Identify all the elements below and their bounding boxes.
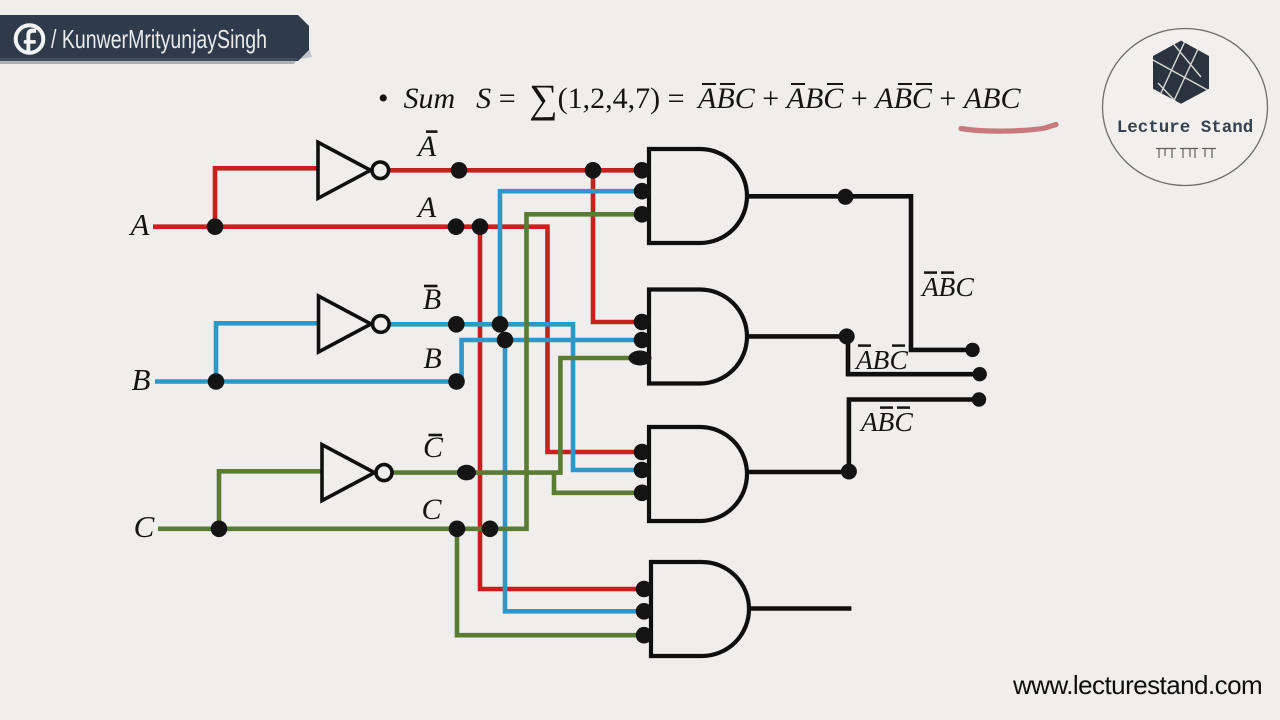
NOT gate U2 (B inverter)	[319, 296, 390, 352]
terminal dot S3	[972, 392, 986, 406]
svg-text:C: C	[134, 509, 155, 544]
pin dot G4 input 3	[636, 627, 653, 644]
svg-text:A: A	[859, 406, 878, 437]
node dot Abar label	[451, 162, 468, 179]
pin dot G3 input 3	[634, 485, 651, 502]
wire C to NOT gate U3	[219, 471, 322, 529]
pin dot G3 input 1	[634, 444, 651, 461]
svg-text:A: A	[416, 130, 437, 163]
wire Bbar branch to AND gate G1	[500, 191, 640, 324]
lecture stand logo	[1095, 15, 1280, 195]
pin dot G1 input 2	[634, 183, 651, 200]
AND gate G3	[649, 427, 747, 521]
pin dot G4 input 1	[636, 581, 653, 598]
pin dot G1 input 1	[634, 162, 651, 179]
wire Cbar step branch to AND gate G3	[554, 473, 640, 493]
junction dot Abar to G2	[585, 162, 602, 179]
AND gate G2	[649, 290, 747, 384]
svg-text:C: C	[956, 271, 975, 302]
wire B input row	[155, 340, 640, 382]
wire B to NOT gate U2	[216, 323, 319, 381]
logo hexagon	[1151, 39, 1213, 107]
junction dot A-inverter tap	[207, 218, 224, 235]
svg-text:A: A	[854, 344, 873, 375]
svg-text:B: B	[939, 271, 956, 302]
logo circle	[1103, 29, 1268, 186]
node dot B label	[448, 373, 465, 390]
terminal dot S2	[973, 367, 987, 381]
junction dot C-inverter tap	[211, 521, 228, 538]
svg-text:B: B	[423, 283, 441, 316]
junction dot B-inverter tap	[208, 373, 225, 390]
pin dot G1 input 3	[634, 206, 651, 223]
facebook badge banner	[0, 0, 330, 70]
node dot A label	[448, 218, 465, 235]
pin dot G4 input 2	[636, 603, 653, 620]
node dot G1 output	[837, 189, 853, 205]
AND gate G4	[651, 562, 749, 656]
junction dot A to G4	[472, 218, 489, 235]
facebook icon circle	[16, 25, 44, 53]
node dot G2 output	[839, 328, 855, 344]
badge body	[0, 15, 309, 61]
NOT gate U1 (A inverter)	[318, 142, 389, 198]
website url	[1013, 670, 1262, 701]
svg-text:C: C	[895, 406, 914, 437]
node dot Cbar label	[457, 465, 476, 481]
junction dot B to G4	[497, 332, 514, 349]
svg-text:A: A	[129, 207, 151, 242]
svg-text:A: A	[920, 271, 939, 302]
node dot Bbar label	[448, 316, 465, 333]
wire A branch to AND gate G4	[480, 227, 640, 589]
sum formula	[378, 82, 1021, 116]
wire A input row	[153, 227, 640, 452]
wire C input row	[158, 214, 640, 529]
svg-text:C: C	[421, 493, 442, 526]
pin dot G2 input 2	[634, 332, 651, 349]
logo hindi tagline	[1156, 149, 1216, 159]
svg-text:B: B	[423, 342, 441, 375]
wire G2 output to terminal	[747, 336, 980, 374]
node dot G3 output	[841, 464, 857, 480]
wire A to NOT gate U1	[215, 168, 318, 226]
svg-text:C: C	[890, 344, 909, 375]
wire B branch to AND gate G4	[505, 340, 640, 611]
node dot C row	[482, 521, 499, 538]
badge fold shadow	[296, 48, 312, 60]
wire G4 output	[747, 606, 851, 611]
wire C branch to AND gate G4	[457, 529, 640, 635]
wire Abar branch to AND gate G2	[593, 170, 640, 322]
svg-text:A: A	[416, 191, 437, 224]
pin dot G2 input 3	[629, 351, 652, 366]
svg-text:B: B	[878, 406, 895, 437]
NOT gate U3 (C inverter)	[322, 445, 392, 501]
wire Abar from U1 to AND gate G1	[389, 168, 640, 173]
wire G1 output to terminal	[747, 196, 973, 350]
pin dot G2 input 1	[634, 314, 651, 331]
svg-text:B: B	[873, 344, 890, 375]
pin dot G3 input 2	[634, 462, 651, 479]
wire Cbar from U3 to AND gate G2	[392, 358, 640, 473]
svg-text:B: B	[132, 362, 151, 397]
terminal dot S1	[965, 343, 979, 357]
junction dot C to G4	[449, 521, 466, 538]
wire G3 output to terminal	[747, 400, 979, 473]
hand-drawn underline under ABC	[950, 118, 1070, 138]
junction dot Bbar to G1	[492, 316, 509, 333]
wire Bbar from U2 to AND gate G3	[390, 324, 641, 470]
AND gate G1	[649, 149, 747, 243]
